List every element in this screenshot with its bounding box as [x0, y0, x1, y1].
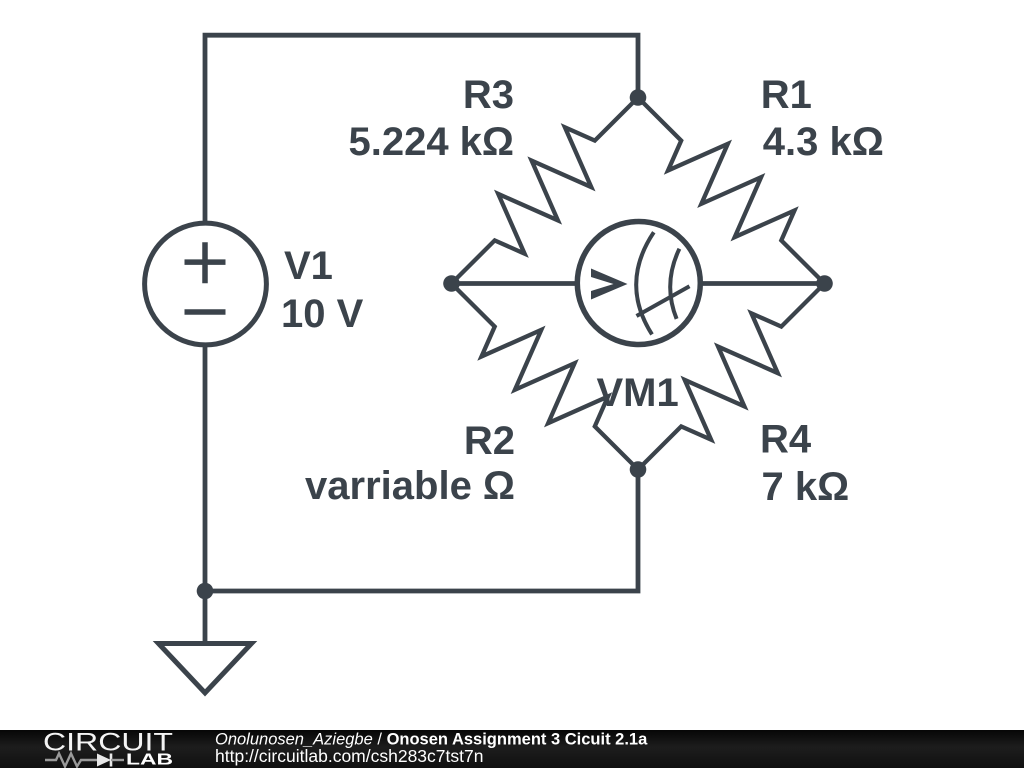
resistor R1 — [638, 98, 825, 284]
svg-text:5.224 kΩ: 5.224 kΩ — [348, 120, 514, 164]
node bottom — [630, 461, 647, 478]
V1 minus sign — [185, 309, 226, 315]
svg-text:varriable Ω: varriable Ω — [305, 464, 515, 508]
logo diode — [97, 754, 111, 767]
svg-text:LAB: LAB — [126, 752, 173, 769]
resistor R2 — [452, 284, 639, 470]
svg-text:VM1: VM1 — [597, 371, 679, 415]
svg-text:R3: R3 — [463, 73, 514, 117]
svg-text:http://circuitlab.com/csh283c7: http://circuitlab.com/csh283c7tst7n — [215, 746, 483, 766]
svg-text:4.3 kΩ: 4.3 kΩ — [763, 120, 884, 164]
node right — [816, 275, 833, 292]
voltage source V1 — [145, 223, 267, 345]
footer bar — [0, 730, 1024, 768]
logo resistor squiggle — [45, 754, 97, 767]
node left — [443, 275, 460, 292]
svg-text:10 V: 10 V — [281, 292, 364, 336]
svg-text:7 kΩ: 7 kΩ — [762, 465, 850, 509]
resistor R4 — [638, 284, 825, 470]
svg-text:R4: R4 — [760, 418, 812, 462]
voltmeter scale arc 2 — [670, 249, 679, 319]
junction ground rail — [197, 583, 214, 600]
voltmeter chevron — [591, 269, 628, 300]
wire: top-left loop from V1 top to bridge top node — [205, 35, 638, 221]
voltmeter needle — [637, 286, 690, 316]
ground — [159, 644, 252, 693]
wire: ground stem — [203, 591, 208, 644]
svg-text:R1: R1 — [761, 73, 812, 117]
voltmeter VM1 body — [577, 222, 700, 345]
wire: V1 bottom to ground junction — [203, 347, 208, 592]
wire: bottom rail from junction to bridge bottom node — [205, 470, 638, 592]
svg-text:R2: R2 — [464, 419, 515, 463]
wire: voltmeter horizontal from left node to right node — [452, 281, 825, 286]
V1 plus sign — [185, 242, 226, 283]
svg-text:V1: V1 — [284, 244, 333, 288]
voltmeter scale arc 1 — [636, 232, 654, 334]
resistor R3 — [452, 98, 639, 284]
node top — [630, 89, 647, 106]
